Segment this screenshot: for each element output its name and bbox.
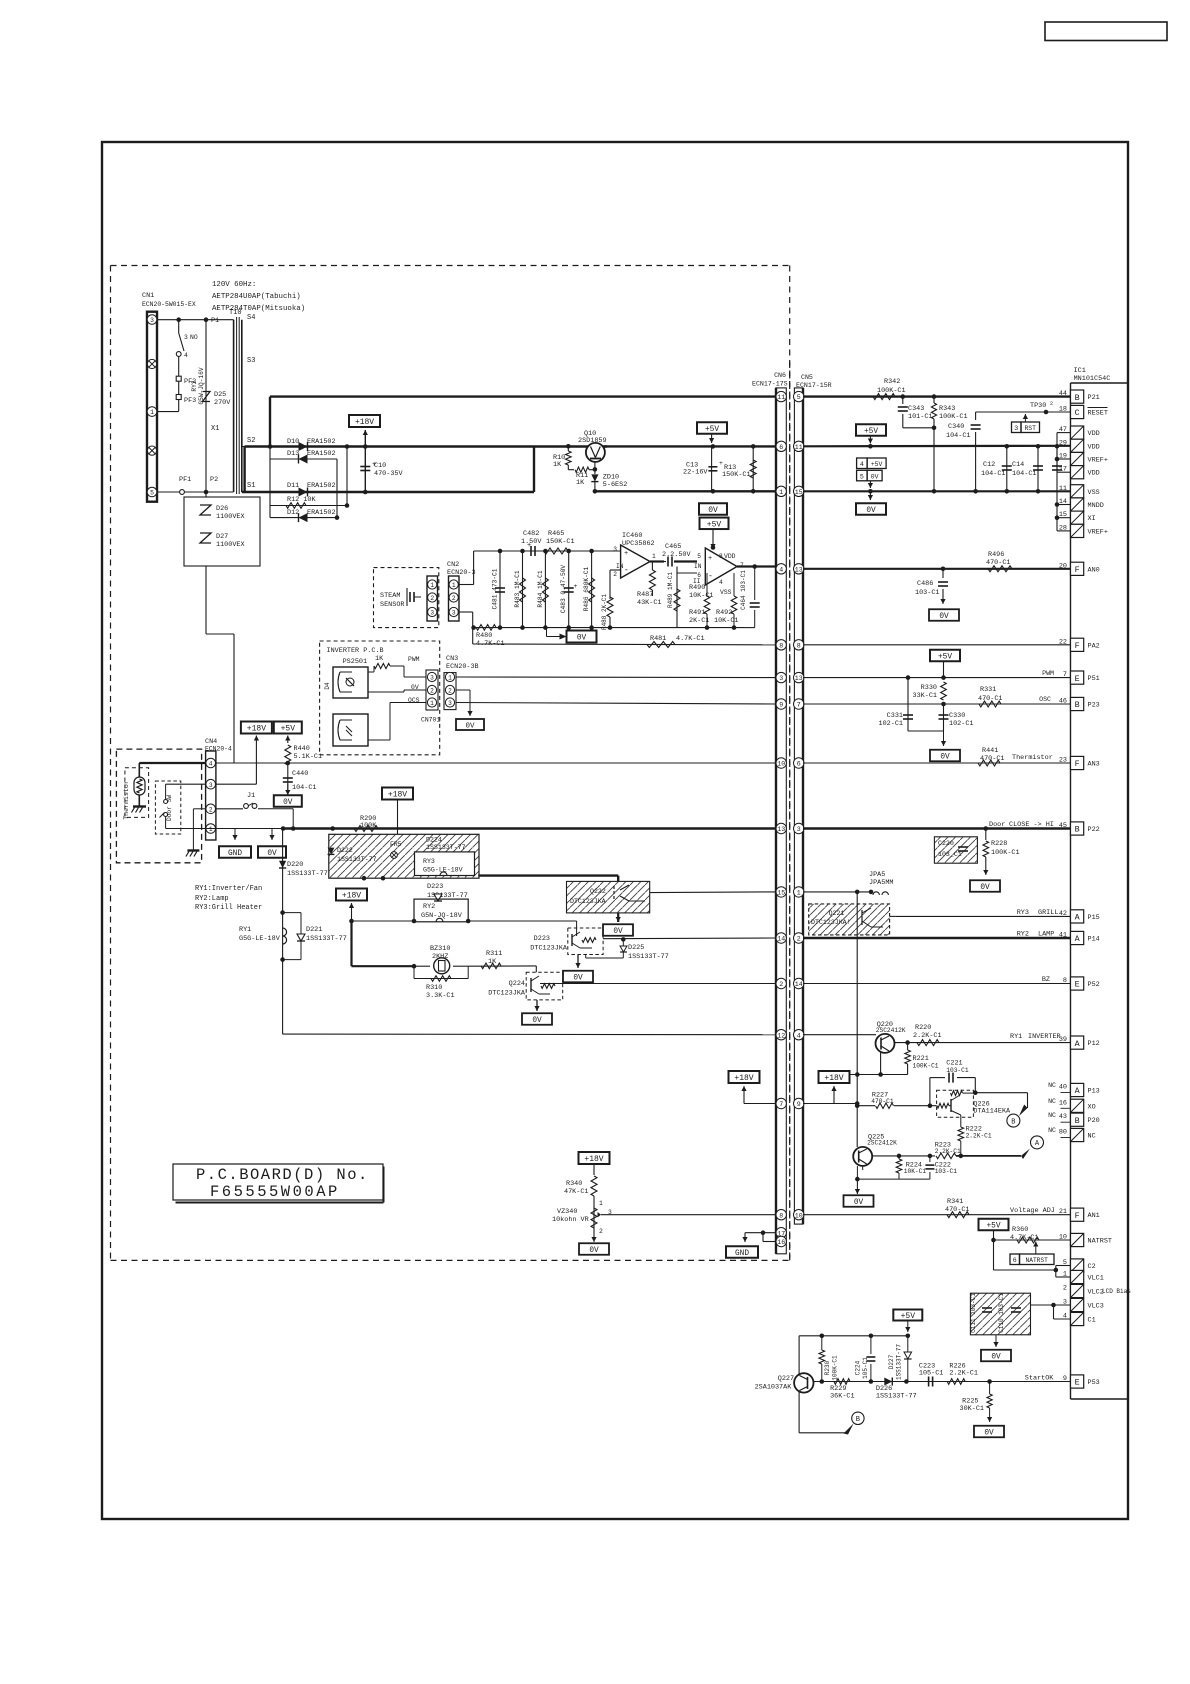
svg-text:2: 2 (1050, 401, 1053, 407)
svg-text:470-35V: 470-35V (374, 470, 403, 478)
svg-text:12: 12 (777, 1032, 785, 1039)
svg-text:0V: 0V (283, 799, 293, 807)
svg-text:F: F (1075, 759, 1080, 769)
svg-text:1SS133T-77: 1SS133T-77 (896, 1344, 903, 1380)
svg-text:5: 5 (150, 490, 154, 497)
svg-text:2: 2 (430, 688, 434, 695)
svg-text:RESET: RESET (1088, 410, 1108, 418)
svg-text:R441: R441 (982, 747, 998, 755)
svg-text:C110 103-C1: C110 103-C1 (998, 1293, 1005, 1333)
svg-text:GND: GND (228, 850, 242, 858)
svg-text:6: 6 (779, 444, 783, 451)
svg-text:3: 3 (430, 610, 434, 617)
svg-text:P51: P51 (1088, 675, 1100, 683)
svg-text:B: B (1075, 700, 1080, 710)
svg-text:D222: D222 (337, 847, 353, 854)
svg-text:10K-C1: 10K-C1 (689, 592, 713, 600)
svg-text:R484 1M-C1: R484 1M-C1 (537, 570, 544, 607)
svg-text:AN1: AN1 (1088, 1212, 1100, 1220)
svg-text:BZ: BZ (1042, 976, 1050, 984)
svg-text:0V: 0V (573, 975, 583, 983)
svg-text:0V: 0V (465, 723, 475, 731)
svg-text:OSC: OSC (1039, 696, 1051, 703)
svg-text:1K: 1K (488, 958, 497, 966)
svg-text:RY3: RY3 (1017, 909, 1029, 917)
svg-text:+: + (574, 583, 578, 590)
svg-text:C10: C10 (374, 462, 386, 470)
svg-text:+: + (624, 550, 628, 558)
svg-text:+18V: +18V (824, 1074, 843, 1083)
svg-text:G5G-LE-18V: G5G-LE-18V (239, 935, 281, 943)
svg-text:2.2K-C1: 2.2K-C1 (949, 1370, 978, 1378)
svg-text:PWM: PWM (408, 656, 420, 663)
svg-text:S1: S1 (247, 482, 255, 490)
svg-text:15: 15 (795, 489, 803, 496)
svg-text:1: 1 (797, 890, 801, 897)
svg-text:S4: S4 (247, 314, 255, 322)
svg-text:3: 3 (209, 782, 213, 789)
svg-text:P2: P2 (210, 476, 218, 484)
svg-text:-: - (624, 566, 629, 575)
svg-text:1: 1 (430, 582, 434, 589)
svg-text:R341: R341 (947, 1198, 963, 1206)
svg-text:R490: R490 (689, 584, 705, 592)
svg-text:D25: D25 (214, 391, 226, 399)
svg-text:104-C1: 104-C1 (981, 470, 1005, 478)
svg-text:P13: P13 (1088, 1088, 1100, 1096)
svg-text:PS2501: PS2501 (343, 658, 367, 666)
svg-text:0V: 0V (980, 884, 990, 892)
svg-text:PF1: PF1 (179, 476, 191, 484)
svg-text:DTA114EKA: DTA114EKA (973, 1108, 1011, 1116)
svg-text:101-C1: 101-C1 (908, 413, 932, 421)
svg-text:2SC2412K: 2SC2412K (867, 1140, 897, 1147)
svg-text:VLC2: VLC2 (1088, 1289, 1104, 1297)
svg-text:R343: R343 (939, 405, 955, 413)
svg-text:NC: NC (1088, 1133, 1096, 1141)
svg-text:NC: NC (1048, 1112, 1056, 1119)
svg-text:102-C1: 102-C1 (879, 720, 903, 728)
svg-text:10: 10 (777, 761, 785, 768)
svg-text:1: 1 (779, 489, 783, 496)
svg-text:+18V: +18V (342, 892, 361, 901)
svg-text:NC: NC (1048, 1082, 1056, 1089)
svg-text:41: 41 (1059, 932, 1067, 940)
svg-text:LCD Bias: LCD Bias (1102, 1288, 1131, 1295)
svg-text:NC: NC (1048, 1098, 1056, 1105)
svg-text:+5V: +5V (901, 1312, 916, 1321)
svg-text:C465: C465 (665, 543, 681, 551)
svg-text:+18V: +18V (355, 418, 374, 427)
svg-text:100K-C1: 100K-C1 (877, 387, 906, 395)
svg-text:15: 15 (1059, 511, 1067, 519)
svg-text:VDD: VDD (1088, 443, 1100, 451)
svg-text:RY2: RY2 (1017, 931, 1029, 939)
svg-text:1SS133T-77: 1SS133T-77 (426, 844, 466, 851)
svg-text:3: 3 (448, 700, 452, 707)
svg-text:1K: 1K (375, 655, 384, 663)
svg-text:42: 42 (1059, 910, 1067, 918)
svg-text:43K-C1: 43K-C1 (637, 599, 661, 607)
svg-text:ECN20-5W015-EX: ECN20-5W015-EX (142, 301, 196, 308)
svg-text:10K-C1: 10K-C1 (904, 1168, 927, 1175)
svg-text:MNDD: MNDD (1088, 502, 1104, 510)
svg-text:CN2: CN2 (447, 561, 459, 569)
svg-text:JPA5: JPA5 (869, 871, 885, 879)
svg-text:UPC35862: UPC35862 (622, 540, 655, 548)
svg-text:VDD: VDD (1088, 470, 1100, 478)
svg-text:RY2: RY2 (423, 903, 435, 911)
svg-text:P53: P53 (1088, 1379, 1100, 1387)
svg-text:E: E (1075, 674, 1080, 684)
svg-text:+18V: +18V (584, 1155, 603, 1164)
svg-text:E: E (1075, 1378, 1080, 1388)
svg-text:Q224: Q224 (509, 980, 525, 988)
svg-text:1SS133T-77: 1SS133T-77 (287, 870, 328, 878)
svg-text:Thermistor: Thermistor (123, 780, 130, 820)
svg-text:470-C1: 470-C1 (986, 559, 1010, 567)
svg-text:1: 1 (652, 553, 656, 560)
svg-text:8: 8 (1063, 977, 1067, 985)
svg-text:11: 11 (777, 394, 785, 401)
svg-text:8: 8 (719, 553, 723, 560)
svg-text:CN6: CN6 (774, 372, 786, 379)
svg-text:P20: P20 (1088, 1117, 1100, 1125)
svg-text:8: 8 (797, 642, 801, 649)
svg-text:5-6ES2: 5-6ES2 (603, 481, 627, 489)
svg-text:2: 2 (797, 936, 801, 943)
svg-text:CN701: CN701 (421, 717, 440, 724)
svg-text:11: 11 (1059, 485, 1067, 493)
svg-text:17: 17 (1059, 466, 1067, 474)
svg-text:4: 4 (209, 761, 213, 768)
svg-text:0V: 0V (871, 473, 879, 480)
svg-text:4: 4 (184, 352, 188, 359)
svg-text:PF3: PF3 (184, 397, 196, 405)
svg-text:104-C1: 104-C1 (1012, 470, 1036, 478)
svg-text:5: 5 (697, 553, 701, 560)
svg-text:+18V: +18V (734, 1074, 753, 1083)
svg-text:+5V: +5V (864, 428, 878, 436)
svg-text:SENSOR: SENSOR (380, 601, 404, 609)
svg-text:+5V: +5V (938, 654, 952, 662)
svg-text:3: 3 (150, 317, 154, 324)
svg-text:2: 2 (209, 806, 213, 813)
svg-text:RY2:Lamp: RY2:Lamp (195, 895, 229, 903)
svg-text:DTC123JKA: DTC123JKA (570, 898, 606, 905)
svg-text:+5V: +5V (707, 520, 722, 529)
svg-text:C482: C482 (523, 530, 539, 538)
svg-text:1SS133T-77: 1SS133T-77 (628, 953, 669, 961)
svg-text:2: 2 (613, 571, 617, 578)
svg-text:C12: C12 (983, 461, 995, 469)
svg-text:R228: R228 (991, 840, 1007, 848)
svg-text:NATRST: NATRST (1088, 1238, 1112, 1246)
svg-text:Door SW: Door SW (166, 795, 173, 821)
svg-text:INVERTER: INVERTER (1028, 1033, 1061, 1041)
svg-text:E: E (1075, 980, 1080, 990)
svg-text:3: 3 (613, 546, 617, 553)
svg-text:3.3K-C1: 3.3K-C1 (426, 992, 455, 1000)
svg-text:AN0: AN0 (1088, 566, 1100, 574)
svg-text:C2: C2 (1088, 1263, 1096, 1271)
svg-text:XI: XI (1088, 515, 1096, 523)
svg-text:VDD: VDD (1088, 430, 1100, 438)
svg-text:0V: 0V (577, 635, 587, 643)
svg-text:R487: R487 (637, 591, 653, 599)
svg-text:R489 1M-C1: R489 1M-C1 (667, 572, 674, 608)
svg-text:R330: R330 (921, 684, 937, 692)
svg-text:29: 29 (1059, 439, 1067, 447)
svg-text:18: 18 (1059, 406, 1067, 414)
svg-text:+: + (527, 542, 531, 550)
svg-text:150K-C1: 150K-C1 (722, 471, 751, 479)
svg-text:F: F (1075, 1211, 1080, 1221)
svg-text:7: 7 (797, 702, 801, 709)
svg-text:D13: D13 (287, 450, 299, 458)
svg-text:100K-C1: 100K-C1 (913, 1063, 939, 1070)
svg-text:105-C1: 105-C1 (919, 1370, 943, 1378)
svg-text:R492: R492 (716, 609, 732, 617)
svg-text:43: 43 (1059, 1113, 1067, 1121)
svg-text:3: 3 (1014, 425, 1018, 432)
svg-text:1K: 1K (553, 461, 562, 469)
svg-text:47: 47 (1059, 426, 1067, 434)
svg-text:30K-C1: 30K-C1 (960, 1405, 984, 1413)
svg-text:IN: IN (616, 563, 624, 570)
svg-text:40: 40 (1059, 1084, 1067, 1092)
svg-text:F65555W00AP: F65555W00AP (210, 1183, 340, 1201)
svg-text:C220: C220 (938, 840, 954, 847)
svg-text:C331: C331 (887, 712, 903, 720)
svg-text:8: 8 (779, 642, 783, 649)
svg-text:16: 16 (777, 1239, 785, 1246)
svg-text:10K-C1: 10K-C1 (714, 617, 738, 625)
svg-text:P22: P22 (1088, 826, 1100, 834)
svg-text:3: 3 (452, 610, 456, 617)
svg-text:2SC2412K: 2SC2412K (876, 1027, 906, 1034)
svg-text:INVERTER P.C.B: INVERTER P.C.B (327, 647, 384, 655)
svg-text:104-C1: 104-C1 (946, 432, 970, 440)
svg-text:P23: P23 (1088, 702, 1100, 710)
svg-text:+18V: +18V (388, 791, 407, 800)
svg-text:F: F (1075, 641, 1080, 651)
svg-text:P12: P12 (1088, 1040, 1100, 1048)
svg-text:C464 103-C1: C464 103-C1 (740, 570, 747, 610)
svg-text:R440: R440 (294, 745, 310, 753)
svg-text:7: 7 (1063, 671, 1067, 679)
svg-text:R496: R496 (988, 551, 1004, 559)
svg-text:1SS133T-77: 1SS133T-77 (306, 935, 347, 943)
svg-text:PA2: PA2 (1088, 642, 1100, 650)
svg-text:ERA1502: ERA1502 (307, 482, 336, 490)
svg-text:Door: Door (989, 821, 1005, 829)
svg-text:10: 10 (795, 1212, 803, 1219)
svg-text:C440: C440 (292, 770, 308, 778)
svg-text:1K: 1K (576, 479, 585, 487)
svg-text:+: + (719, 460, 723, 467)
svg-text:1SS133T-77: 1SS133T-77 (876, 1393, 917, 1401)
svg-text:C481 473-C1: C481 473-C1 (492, 568, 499, 609)
svg-text:+5V: +5V (705, 426, 719, 434)
svg-text:VLC3: VLC3 (1088, 1303, 1104, 1311)
svg-text:D223: D223 (427, 883, 443, 891)
svg-text:14: 14 (777, 936, 785, 943)
svg-text:270V: 270V (214, 399, 231, 407)
svg-text:RY3: RY3 (423, 858, 435, 865)
svg-text:104-C1: 104-C1 (292, 784, 316, 792)
svg-text:1: 1 (1063, 1271, 1067, 1279)
svg-text:C340: C340 (948, 423, 964, 431)
svg-text:J1: J1 (247, 792, 255, 800)
svg-text:23: 23 (1059, 757, 1067, 765)
svg-text:15: 15 (777, 890, 785, 897)
svg-text:9: 9 (1063, 1375, 1067, 1383)
svg-text:3: 3 (430, 675, 434, 682)
svg-text:StartOK: StartOK (1025, 1375, 1054, 1383)
svg-text:13: 13 (777, 826, 785, 833)
svg-text:R486 680K-C1: R486 680K-C1 (583, 566, 590, 611)
svg-text:P21: P21 (1088, 394, 1100, 402)
svg-text:45: 45 (1059, 822, 1067, 830)
svg-text:D225: D225 (628, 944, 644, 952)
svg-text:GRILL: GRILL (1038, 909, 1058, 917)
svg-text:R488 2K-C1: R488 2K-C1 (601, 594, 608, 630)
svg-text:100K-C1: 100K-C1 (991, 849, 1020, 857)
svg-text:47K-C1: 47K-C1 (564, 1188, 588, 1196)
svg-text:+5V: +5V (871, 461, 883, 468)
svg-text:R481: R481 (650, 635, 666, 643)
svg-text:D221: D221 (306, 926, 322, 934)
svg-text:1100VEX: 1100VEX (216, 541, 245, 549)
svg-text:46: 46 (1059, 698, 1067, 706)
svg-text:3: 3 (797, 826, 801, 833)
svg-text:150K-C1: 150K-C1 (546, 538, 575, 546)
svg-text:5: 5 (1063, 1259, 1067, 1267)
svg-text:R230: R230 (824, 1360, 831, 1375)
svg-text:2SA1037AK: 2SA1037AK (755, 1384, 793, 1392)
svg-text:105-C1: 105-C1 (862, 1357, 869, 1379)
svg-text:D220: D220 (287, 861, 303, 869)
svg-text:10: 10 (1059, 1234, 1067, 1242)
svg-text:33K-C1: 33K-C1 (913, 692, 937, 700)
svg-text:XO: XO (1088, 1103, 1096, 1111)
svg-text:R491: R491 (689, 609, 705, 617)
svg-text:D26: D26 (216, 505, 228, 513)
svg-text:P14: P14 (1088, 936, 1100, 944)
svg-text:VZ340: VZ340 (557, 1208, 577, 1216)
svg-text:39: 39 (1059, 1036, 1067, 1044)
svg-text:100K-C1: 100K-C1 (939, 413, 968, 421)
svg-text:BZ310: BZ310 (430, 945, 450, 953)
svg-text:8: 8 (779, 1212, 783, 1219)
svg-text:0V: 0V (854, 1199, 864, 1207)
svg-text:X1: X1 (211, 425, 219, 433)
svg-text:4: 4 (860, 461, 864, 468)
svg-text:B: B (856, 1416, 860, 1424)
svg-text:0V: 0V (708, 506, 718, 515)
svg-text:D27: D27 (216, 533, 228, 541)
svg-text:R480: R480 (476, 632, 492, 640)
svg-text:7: 7 (779, 1101, 783, 1108)
svg-text:NATRST: NATRST (1026, 1257, 1049, 1264)
svg-text:D4: D4 (324, 682, 331, 690)
svg-text:44: 44 (1059, 390, 1067, 398)
svg-text:FR5: FR5 (390, 841, 402, 848)
svg-text:21: 21 (1059, 1208, 1067, 1216)
svg-text:Q221: Q221 (829, 910, 845, 917)
svg-text:1.50V: 1.50V (521, 538, 542, 546)
svg-text:CN3: CN3 (446, 655, 458, 663)
svg-text:1: 1 (209, 826, 213, 833)
svg-text:Q222: Q222 (590, 888, 606, 895)
svg-text:-: - (708, 572, 713, 581)
svg-text:RY1: RY1 (239, 926, 251, 934)
svg-text:TP30: TP30 (1030, 402, 1046, 410)
svg-text:GND: GND (735, 1250, 749, 1258)
svg-text:2: 2 (1063, 1285, 1067, 1293)
svg-text:13: 13 (795, 675, 803, 682)
svg-text:C486: C486 (917, 580, 933, 588)
svg-text:Voltage ADJ: Voltage ADJ (1010, 1207, 1055, 1215)
svg-text:NO: NO (190, 334, 198, 341)
svg-text:MN101C54C: MN101C54C (1074, 375, 1111, 383)
svg-text:0V: 0V (589, 1247, 599, 1255)
svg-text:3: 3 (184, 334, 188, 341)
svg-text:VDD: VDD (724, 553, 736, 560)
svg-text:C14: C14 (1012, 461, 1024, 469)
svg-text:P.C.BOARD(D) No.: P.C.BOARD(D) No. (196, 1166, 369, 1184)
svg-text:B: B (1075, 825, 1080, 835)
svg-text:100K-C1: 100K-C1 (832, 1355, 839, 1381)
svg-text:1100VEX: 1100VEX (216, 513, 245, 521)
svg-text:1: 1 (430, 700, 434, 707)
svg-text:1: 1 (448, 675, 452, 682)
svg-text:IC1: IC1 (1074, 367, 1086, 375)
svg-text:RY1: RY1 (1010, 1033, 1022, 1041)
svg-text:VREF+: VREF+ (1088, 457, 1108, 465)
svg-text:0V: 0V (940, 754, 950, 762)
svg-text:PWM: PWM (1042, 670, 1054, 677)
svg-text:14: 14 (795, 981, 803, 988)
svg-text:10kohn VR: 10kohn VR (552, 1216, 589, 1224)
svg-text:+5V: +5V (281, 725, 296, 734)
svg-text:1: 1 (452, 582, 456, 589)
svg-text:DTC123JKA: DTC123JKA (488, 990, 526, 998)
svg-text:R220: R220 (915, 1024, 931, 1032)
svg-text:19: 19 (1059, 453, 1067, 461)
svg-text:C483 0.47-50V: C483 0.47-50V (560, 565, 567, 614)
svg-text:RST: RST (1024, 425, 1036, 432)
svg-text:CLOSE -> HI: CLOSE -> HI (1009, 821, 1054, 829)
svg-text:CN1: CN1 (142, 292, 154, 300)
svg-text:0V: 0V (866, 507, 876, 515)
svg-text:ERA1502: ERA1502 (307, 509, 336, 517)
svg-text:103-C1: 103-C1 (915, 589, 939, 597)
svg-text:5: 5 (797, 394, 801, 401)
svg-text:VSS: VSS (720, 589, 732, 596)
svg-text:JPA5MM: JPA5MM (869, 879, 893, 887)
svg-text:120V 60Hz:: 120V 60Hz: (212, 281, 256, 289)
svg-text:AETP284U0AP(Tabuchi): AETP284U0AP(Tabuchi) (212, 293, 301, 301)
svg-text:6: 6 (797, 761, 801, 768)
svg-text:R465: R465 (548, 530, 564, 538)
svg-text:3: 3 (779, 675, 783, 682)
svg-text:R483 1M-C1: R483 1M-C1 (514, 570, 521, 607)
svg-text:20: 20 (1059, 562, 1067, 570)
svg-text:D223: D223 (534, 935, 550, 943)
svg-text:D227: D227 (888, 1354, 895, 1369)
